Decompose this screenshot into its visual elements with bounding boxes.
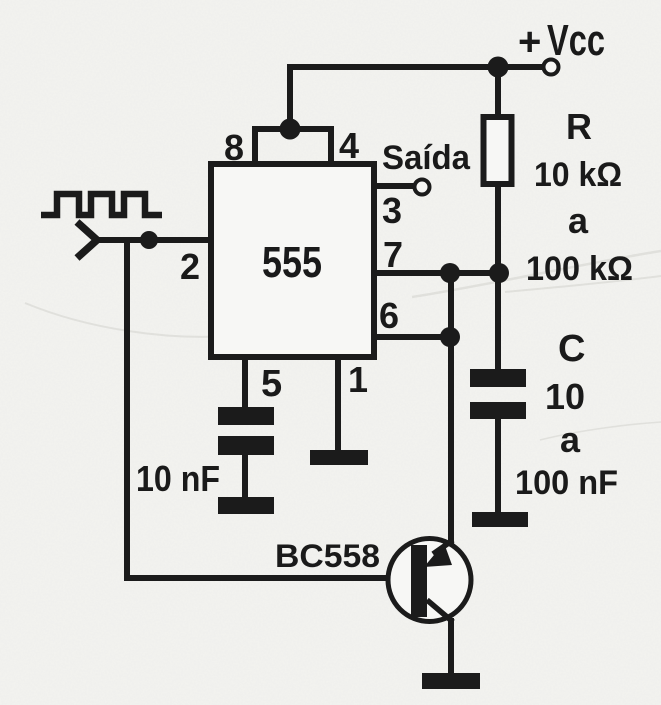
svg-text:100 kΩ: 100 kΩ [526, 250, 633, 288]
svg-text:555: 555 [262, 238, 322, 287]
svg-text:Saída: Saída [382, 139, 471, 177]
svg-text:100 nF: 100 nF [515, 464, 618, 502]
svg-text:BC558: BC558 [275, 538, 380, 574]
svg-text:8: 8 [224, 127, 244, 168]
svg-text:10: 10 [545, 376, 585, 417]
svg-text:Vcc: Vcc [547, 16, 605, 65]
svg-text:6: 6 [379, 295, 399, 336]
svg-text:a: a [568, 200, 589, 241]
svg-text:4: 4 [339, 125, 359, 166]
svg-text:+: + [518, 20, 541, 64]
svg-text:3: 3 [382, 190, 402, 231]
svg-text:7: 7 [383, 234, 403, 275]
svg-text:2: 2 [180, 246, 200, 287]
svg-text:1: 1 [348, 359, 368, 400]
svg-text:10 kΩ: 10 kΩ [534, 156, 622, 194]
svg-text:C: C [558, 328, 585, 370]
svg-text:5: 5 [261, 363, 282, 405]
svg-text:10 nF: 10 nF [136, 458, 220, 499]
svg-text:R: R [566, 106, 592, 147]
svg-text:a: a [560, 419, 581, 460]
